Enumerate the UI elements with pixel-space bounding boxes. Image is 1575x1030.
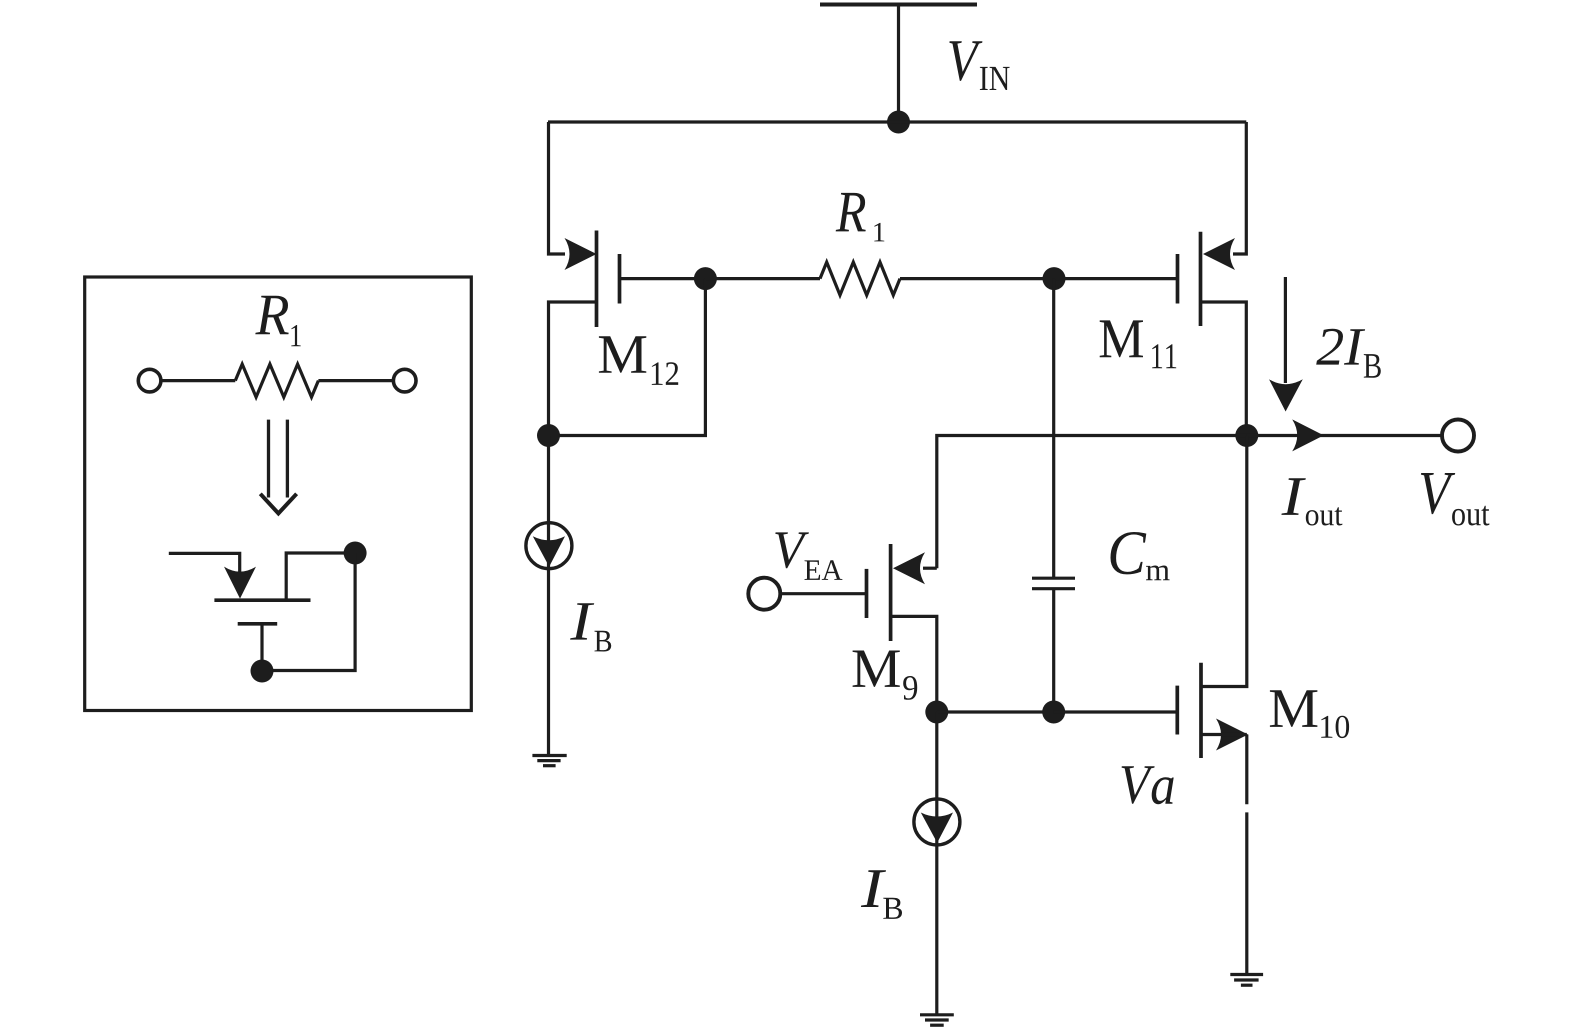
wire inset drain [286,553,355,600]
inset box [85,277,472,711]
wire M12 gate-drain tie [549,279,706,436]
wire Cm bottom [1052,590,1055,712]
wire M10 source down lower [1245,812,1248,974]
label Cm [1111,532,1170,580]
wire node to current source IB1 [547,436,550,756]
resistor R1 inset [235,364,318,397]
node R1 right [1043,267,1066,290]
transistor M12 [565,231,620,328]
wire Cm node to M10 gate [1054,710,1178,713]
label VEA [775,532,842,580]
wire M10 drain [1201,436,1247,687]
label Va [1122,766,1174,804]
power supply bar VIN [820,3,977,7]
transistor M10 [1177,663,1248,758]
ground IB1 [532,756,566,766]
node inset drain [344,542,367,565]
node inset gate [251,660,274,683]
wire M9 source [891,616,937,712]
node M9 source [925,701,948,724]
wire M9 drain corner [923,567,937,570]
wire node to Cm node [937,710,1054,713]
transistor M9 [867,544,926,641]
wire M10 source down upper [1245,735,1248,805]
label M11 [1100,320,1177,368]
wire M10 source [1201,733,1247,736]
wire inset left [162,379,236,382]
wire Cm top [1052,279,1055,577]
label 2IB [1316,329,1381,378]
label M9 [853,651,918,700]
equivalence arrow [260,420,296,514]
wire M9 drain to output node [937,436,1247,569]
arrow 2IB [1269,277,1303,412]
wire M12 source drop [549,122,566,254]
node M12 gate [694,267,717,290]
port Vout [1442,420,1474,452]
resistor R1 [820,262,900,295]
current source IB1 [526,523,572,569]
node output [1235,424,1258,447]
wire output node to Vout [1247,434,1442,437]
arrow Iout [1292,419,1324,451]
transistor M1 inset [169,553,311,671]
port VEA [748,578,780,610]
wire R1 to node [900,277,1054,280]
current source IB2 [914,799,960,845]
wire node to M11 gate [1054,277,1178,280]
wire VIN rail [548,120,1246,123]
label R1 [836,193,885,242]
label IB2 [861,870,902,919]
label R1 inset [255,296,300,347]
wire inset right [318,379,393,382]
label Iout [1281,478,1342,525]
label IB1 [570,603,611,651]
wire M11 source drop [1233,122,1246,254]
wire VEA to M9 gate [780,592,867,595]
label M12 [599,336,678,385]
port inset left [138,369,161,392]
wire inset gate tie [262,553,355,671]
wire M12 drain bottom [549,302,597,436]
label VIN [949,41,1009,90]
node Cm bottom [1042,701,1065,724]
capacitor Cm [1032,578,1075,589]
label M10 [1270,690,1349,738]
ground M10 [1230,975,1263,986]
ground IB2 [920,1015,954,1025]
transistor M11 [1178,232,1236,326]
port inset right [393,369,416,392]
wire VIN stem [897,5,900,123]
wire node to current source IB2 [935,712,938,1014]
label Vout [1421,473,1490,526]
wire node to R1 [705,277,820,280]
wire M11 drain [1201,302,1247,425]
node M12 drain [537,424,560,447]
wire M12 gate [620,277,706,280]
node VIN rail [887,111,910,134]
